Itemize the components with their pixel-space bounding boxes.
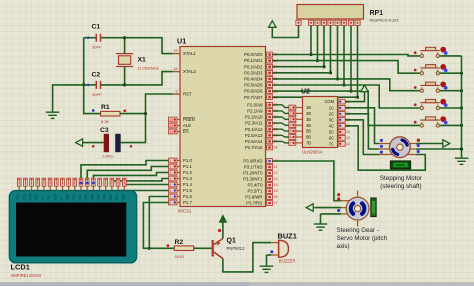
resistor R2 xyxy=(167,239,194,259)
op-amp U1 body (80C51 microcontroller) xyxy=(177,37,266,214)
power arrow (servo VCC) xyxy=(306,204,341,212)
wire P1.5 to LCD pin 17 xyxy=(118,190,168,192)
wire servo to ground xyxy=(321,214,342,224)
U1 pins P1.0-P1.7 xyxy=(169,158,193,205)
svg-text:PNP9012: PNP9012 xyxy=(227,246,246,251)
wire button 5 to ground rail xyxy=(440,124,463,127)
svg-text:4: 4 xyxy=(169,177,171,181)
buzzer BUZ1 xyxy=(270,232,297,264)
push button SW4 xyxy=(414,99,448,110)
svg-text:P3.1/TXD: P3.1/TXD xyxy=(244,165,263,170)
svg-text:1: 1 xyxy=(290,106,292,110)
wire button 3 to ground rail xyxy=(440,89,463,92)
svg-text:12: 12 xyxy=(273,171,277,175)
ground (crystal caps) xyxy=(46,112,60,118)
svg-text:P0.4/AD4: P0.4/AD4 xyxy=(244,77,263,82)
svg-text:7C: 7C xyxy=(329,141,334,146)
power arrow (Q1 VCC) xyxy=(219,215,226,228)
svg-text:Steering Gear -: Steering Gear - xyxy=(337,227,379,234)
wire U2 2C to stepper xyxy=(345,114,379,149)
svg-text:RST: RST xyxy=(115,194,119,201)
wire stepper to power arrow xyxy=(416,140,450,148)
svg-text:BUZ1: BUZ1 xyxy=(278,232,297,241)
svg-text:P3.2/INT0: P3.2/INT0 xyxy=(243,171,263,176)
svg-text:30PF: 30PF xyxy=(92,92,102,97)
wire C3 right to RST net xyxy=(121,114,146,143)
wire P3.0 to servo xyxy=(273,161,342,201)
capacitor C2 xyxy=(84,72,125,98)
LCD pin headers 1-18 xyxy=(17,178,126,191)
wire R2 to Q1 base xyxy=(194,247,212,249)
wire button 4 to ground rail xyxy=(440,106,463,109)
label LCD1 xyxy=(11,263,42,279)
svg-text:510R: 510R xyxy=(175,254,185,259)
svg-text:DB1: DB1 xyxy=(72,194,76,201)
push button SW1 xyxy=(414,47,448,58)
wire P1.6 to R2 net xyxy=(148,197,169,250)
wire C1-C2 junction vertical xyxy=(82,38,85,87)
wires P2.0-P2.6 to U2 inputs xyxy=(273,105,289,143)
svg-text:P0.7/AD7: P0.7/AD7 xyxy=(244,95,263,100)
svg-text:15: 15 xyxy=(273,189,277,193)
U1 pins P3.0-P3.7 xyxy=(243,159,277,206)
svg-text:30: 30 xyxy=(169,124,173,128)
power arrow (U2 COM VCC) xyxy=(345,85,368,101)
svg-text:P1.2: P1.2 xyxy=(183,170,192,175)
svg-text:3C: 3C xyxy=(329,117,334,122)
svg-text:13: 13 xyxy=(346,136,350,140)
svg-text:RESPACK-8-103: RESPACK-8-103 xyxy=(370,19,399,23)
svg-text:DB5: DB5 xyxy=(97,194,101,201)
ground (servo) xyxy=(314,224,328,230)
wire P1.0 to LCD pin 11 xyxy=(81,161,169,179)
U1 pins P0.0-P0.7 xyxy=(244,52,278,100)
svg-text:7: 7 xyxy=(290,141,292,145)
push button SW3 xyxy=(414,82,448,93)
svg-text:P2.0/A8: P2.0/A8 xyxy=(247,102,263,107)
svg-text:6: 6 xyxy=(169,189,171,193)
svg-text:11.0592MHz: 11.0592MHz xyxy=(138,67,159,71)
RP1 pin boxes 1-9 xyxy=(296,20,360,30)
svg-text:U1: U1 xyxy=(177,37,186,46)
LCD1 display body (AMPIRE128X64) xyxy=(9,191,136,263)
crystal X1 xyxy=(116,36,159,86)
wire to ground at crystal xyxy=(53,85,84,112)
wire P1.4 to LCD pin 18 xyxy=(124,184,168,186)
capacitor C1 xyxy=(84,24,125,50)
svg-text:CS1: CS1 xyxy=(16,194,20,201)
node LCD data pin markers xyxy=(80,182,95,185)
svg-text:14: 14 xyxy=(273,183,277,187)
svg-text:31: 31 xyxy=(169,130,173,134)
svg-text:4B: 4B xyxy=(306,123,311,128)
wire U2 3C to stepper xyxy=(345,120,379,155)
svg-text:5: 5 xyxy=(169,183,171,187)
svg-text:P0.1/AD1: P0.1/AD1 xyxy=(244,58,263,63)
svg-text:RS: RS xyxy=(47,195,51,200)
svg-text:P0.2/AD2: P0.2/AD2 xyxy=(244,64,263,69)
label stepping motor xyxy=(380,175,422,190)
svg-text:RST: RST xyxy=(183,92,192,97)
svg-text:GND: GND xyxy=(29,192,33,200)
svg-text:P1.0: P1.0 xyxy=(183,158,192,163)
transistor-array U2 body (ULN2803A) xyxy=(301,89,338,155)
svg-text:2: 2 xyxy=(290,112,292,116)
svg-text:5C: 5C xyxy=(329,129,334,134)
svg-text:C3: C3 xyxy=(100,127,109,134)
svg-text:ULN2803A: ULN2803A xyxy=(302,150,323,155)
wire P0.2 stub xyxy=(273,66,325,68)
svg-text:DB4: DB4 xyxy=(90,194,94,201)
svg-text:P1.5: P1.5 xyxy=(183,188,192,193)
svg-text:P0.3/AD3: P0.3/AD3 xyxy=(244,70,263,75)
svg-text:14: 14 xyxy=(346,130,350,134)
wire P1.2 to LCD pin 13 xyxy=(93,173,168,179)
svg-text:DB3: DB3 xyxy=(84,194,88,201)
push button SW5 xyxy=(414,116,448,127)
svg-text:XTAL2: XTAL2 xyxy=(183,69,196,74)
svg-text:PSEN: PSEN xyxy=(183,117,195,122)
svg-text:17: 17 xyxy=(273,201,277,205)
svg-text:8: 8 xyxy=(169,201,171,205)
transistor Q1 (PNP9012) xyxy=(213,229,245,259)
svg-text:R1: R1 xyxy=(101,104,110,111)
svg-text:1C: 1C xyxy=(329,105,334,110)
wire P1.1 to LCD pin 12 xyxy=(87,167,168,179)
svg-text:P3.5/T1: P3.5/T1 xyxy=(247,189,263,194)
push button SW2 xyxy=(414,64,448,75)
svg-text:LCD1: LCD1 xyxy=(11,263,30,272)
U2 output pins 1C-7C xyxy=(329,105,350,146)
svg-text:1: 1 xyxy=(169,159,171,163)
svg-text:R/W: R/W xyxy=(53,193,57,200)
svg-text:P0.0/AD0: P0.0/AD0 xyxy=(244,52,263,57)
svg-text:16: 16 xyxy=(273,195,277,199)
svg-text:DB6: DB6 xyxy=(103,194,107,201)
svg-text:11: 11 xyxy=(273,165,277,169)
svg-text:axis): axis) xyxy=(337,243,350,250)
wire P1.3 to LCD pin 16 xyxy=(112,179,168,184)
svg-text:9: 9 xyxy=(175,90,177,94)
svg-text:P1.6: P1.6 xyxy=(183,194,192,199)
svg-text:3: 3 xyxy=(290,118,292,122)
svg-text:8.2K: 8.2K xyxy=(101,119,110,124)
wire U2 1C to stepper xyxy=(345,108,379,144)
ground rail vertical (buttons) xyxy=(461,56,463,158)
svg-text:P1.4: P1.4 xyxy=(183,182,192,187)
wire P0.4 to button 3 xyxy=(273,79,420,91)
svg-text:P0.6/AD6: P0.6/AD6 xyxy=(244,89,263,94)
svg-text:1000u: 1000u xyxy=(103,155,114,159)
svg-text:P3.0/RXD: P3.0/RXD xyxy=(243,159,262,164)
capacitor C3 (electrolytic) xyxy=(92,127,132,159)
svg-text:6B: 6B xyxy=(306,135,311,140)
svg-text:4C: 4C xyxy=(329,123,334,128)
wire P0.0 to button 1 xyxy=(273,55,420,56)
svg-text:80C51: 80C51 xyxy=(178,209,192,214)
svg-text:U2: U2 xyxy=(301,89,310,96)
svg-text:C2: C2 xyxy=(92,72,101,79)
label servo motor xyxy=(337,227,388,250)
svg-text:P3.4/T0: P3.4/T0 xyxy=(247,183,263,188)
wire R1 left to ground net xyxy=(84,85,101,114)
wire buzzer to ground xyxy=(267,255,272,266)
svg-text:7B: 7B xyxy=(306,141,311,146)
power arrow (RP1 pin1 VCC) xyxy=(269,21,299,38)
wire button 1 to ground rail xyxy=(440,55,462,57)
svg-text:P2.5/A13: P2.5/A13 xyxy=(245,133,263,138)
servo readout display xyxy=(371,198,376,217)
svg-text:7: 7 xyxy=(169,195,171,199)
wire P0.7 stub xyxy=(273,96,358,98)
stepper readout display xyxy=(391,161,411,169)
wire Q1 collector to buzzer xyxy=(223,243,271,272)
svg-text:P2.6/A14: P2.6/A14 xyxy=(245,139,263,144)
svg-text:Servo Motor (pitch: Servo Motor (pitch xyxy=(337,235,388,242)
U1 pins XTAL1/XTAL2/RST xyxy=(173,49,197,97)
svg-text:P3.6/WR: P3.6/WR xyxy=(245,195,262,200)
window bottom edge strip xyxy=(0,282,474,286)
svg-text:18: 18 xyxy=(173,67,177,71)
wire C1 to XTAL1 xyxy=(125,38,173,54)
svg-text:13: 13 xyxy=(273,177,277,181)
svg-text:COM: COM xyxy=(324,99,334,104)
svg-text:5B: 5B xyxy=(306,129,311,134)
svg-text:P2.3/A11: P2.3/A11 xyxy=(245,121,263,126)
svg-text:P2.2/A10: P2.2/A10 xyxy=(245,115,263,120)
ground (buzzer) xyxy=(260,266,274,272)
svg-text:Q1: Q1 xyxy=(227,238,236,245)
wire stepper to ground rail xyxy=(416,147,463,150)
svg-text:XTAL1: XTAL1 xyxy=(183,51,196,56)
motor M1 stepping motor xyxy=(379,137,420,158)
svg-text:P2.1/A9: P2.1/A9 xyxy=(247,109,263,114)
svg-text:29: 29 xyxy=(169,118,173,122)
wire P0.6 to button 5 xyxy=(273,91,420,125)
U1 pins PSEN/ALE/EA xyxy=(169,117,195,134)
svg-text:1B: 1B xyxy=(306,105,311,110)
svg-text:P1.7: P1.7 xyxy=(183,200,192,205)
svg-text:6: 6 xyxy=(290,135,292,139)
svg-text:P2.7/A15: P2.7/A15 xyxy=(245,145,263,150)
svg-text:Stepping Motor: Stepping Motor xyxy=(380,175,422,182)
svg-text:RP1: RP1 xyxy=(370,10,384,17)
svg-text:2: 2 xyxy=(169,165,171,169)
svg-text:3B: 3B xyxy=(306,117,311,122)
svg-text:P3.7/RD: P3.7/RD xyxy=(246,201,262,206)
svg-text:C1: C1 xyxy=(92,24,101,31)
svg-text:DB0: DB0 xyxy=(66,194,70,201)
svg-text:30PF: 30PF xyxy=(92,45,102,50)
svg-text:X1: X1 xyxy=(138,57,147,64)
wire P0.1 to button 2 xyxy=(273,61,420,74)
svg-text:3: 3 xyxy=(169,171,171,175)
svg-text:DB7: DB7 xyxy=(109,194,113,201)
wire button 2 to ground rail xyxy=(440,72,463,75)
svg-text:19: 19 xyxy=(173,49,177,53)
svg-text:2B: 2B xyxy=(306,111,311,116)
resistor R1 xyxy=(92,104,126,124)
wire P0.5 to button 4 xyxy=(273,85,420,108)
resistor pack RP1 body xyxy=(297,5,398,23)
power arrow (C3 VCC) xyxy=(76,139,104,147)
U2 input pins 1B-7B xyxy=(289,105,311,145)
svg-text:CS2: CS2 xyxy=(22,194,26,201)
wires RP1 pins 2-9 to P0 bus xyxy=(309,26,359,99)
ground (button rail) xyxy=(455,158,469,164)
svg-text:AMPIRE128X64: AMPIRE128X64 xyxy=(11,273,42,278)
svg-text:28: 28 xyxy=(273,146,277,150)
svg-text:DB2: DB2 xyxy=(78,194,82,201)
wire P1.7 to R2 xyxy=(143,203,174,249)
svg-text:P1.1: P1.1 xyxy=(183,164,192,169)
svg-text:R2: R2 xyxy=(175,239,184,246)
wire P0.3 stub xyxy=(273,72,331,74)
svg-text:V0: V0 xyxy=(41,196,45,200)
svg-text:2C: 2C xyxy=(329,111,334,116)
wire Q1 emitter to power xyxy=(222,228,224,238)
svg-text:P2.4/A12: P2.4/A12 xyxy=(245,127,263,132)
svg-text:P3.3/INT1: P3.3/INT1 xyxy=(243,177,263,182)
svg-text:(steering shaft): (steering shaft) xyxy=(380,183,421,190)
U2 pin COM xyxy=(324,99,350,104)
svg-text:P0.5/AD5: P0.5/AD5 xyxy=(244,83,263,88)
svg-text:ALE: ALE xyxy=(183,123,191,128)
U1 pins P2.0-P2.7 xyxy=(245,102,278,150)
svg-text:VCC: VCC xyxy=(35,193,39,201)
wire U2 4C to stepper (bottom loop) xyxy=(345,126,425,170)
svg-text:4: 4 xyxy=(290,124,292,128)
motor M2 servo motor xyxy=(337,191,369,227)
svg-text:P1.3: P1.3 xyxy=(183,176,192,181)
svg-text:5: 5 xyxy=(290,130,292,134)
svg-text:EA: EA xyxy=(183,129,189,134)
wire C2 to XTAL2 xyxy=(125,72,173,85)
svg-text:BUZZER: BUZZER xyxy=(279,259,296,264)
svg-text:VEE: VEE xyxy=(121,193,125,201)
wire R1 right to RST xyxy=(120,94,173,115)
svg-text:12: 12 xyxy=(346,142,350,146)
svg-text:6C: 6C xyxy=(329,135,334,140)
